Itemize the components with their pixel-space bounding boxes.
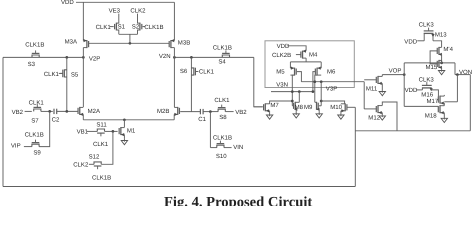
switch S4 [222,55,229,57]
wire M2A source down [82,114,84,119]
junction V2N at M3B drain [173,56,176,59]
svg-text:V2N: V2N [159,53,171,60]
wire M17 drain stub [443,95,445,96]
svg-text:CLK2B: CLK2B [272,52,291,59]
ground below M18 [443,118,445,120]
switch S9 [32,144,39,146]
junction V3N at M5 drain [291,90,294,93]
transistor M17 [439,96,441,104]
svg-text:S2: S2 [132,23,140,30]
wire into M7 gate bar [254,106,263,108]
svg-text:M9: M9 [304,104,313,111]
svg-text:VIP: VIP [11,142,21,149]
wire M12 drain to VON loop [382,102,397,131]
junction on V3P riser [320,100,323,103]
transistor M16 gate bar [422,84,432,86]
wire M16 left lead [421,88,423,90]
svg-text:VB1: VB1 [77,128,89,135]
ground below M12 [381,115,383,117]
wire M11 source down [381,83,383,91]
transistor M13 gate bar [424,30,434,32]
wire M13 to M14 source [433,41,442,48]
wire M8 drain riser [298,92,300,103]
svg-text:CLK1: CLK1 [29,99,45,106]
junction V2N to S6 [190,56,193,59]
wire CLK2 to S12 [89,163,94,165]
svg-text:CLK1: CLK1 [44,71,60,78]
ground below M7 [269,113,271,117]
switch S12 [94,162,101,164]
wire S5 gate lead [59,72,63,74]
junction V3P at M9 gate riser [320,80,323,83]
svg-text:S1: S1 [118,23,126,30]
svg-text:M18: M18 [425,112,437,119]
transistor M6 [316,68,318,76]
svg-text:S7: S7 [31,117,39,124]
wire S11 to M1 gate [105,130,118,132]
wire M7 source down [269,111,271,113]
wire S7 to C2 [41,110,53,112]
wire M6 gate to node V3N [313,72,315,92]
transistor M8 [294,102,296,110]
ground below M9 [318,111,320,115]
wire to M11 gate [364,79,376,81]
wire node VOP [382,74,404,76]
wire S2 source down [138,30,140,34]
wire VDD dash to M16 [416,89,423,91]
wire VON feedback bottom [355,130,470,132]
svg-text:CLK1B: CLK1B [25,132,44,139]
transistor M11 [377,76,379,84]
svg-text:V3N: V3N [276,82,288,89]
junction V3P at M6 drain [313,80,316,83]
svg-text:CLK2: CLK2 [73,161,89,168]
capacitor C1 [199,109,201,114]
wire M15 drain up [441,60,443,63]
wire M7 drain to V3N riser [270,101,293,104]
transistor M7 [264,103,266,111]
svg-text:M6: M6 [327,69,336,76]
wire VON to M17 source node [444,101,457,103]
wire S2 drain to CLK2 [138,14,140,24]
wire M5 gate to node V3P [297,72,301,82]
svg-text:VDD: VDD [404,39,417,46]
transistor M13 channel [424,32,434,34]
svg-text:M10: M10 [330,104,342,111]
wire C2 to M2A gate [57,110,79,112]
junction S1S2 to gate wire [129,42,132,45]
wire S12 to M1 gate node [101,131,113,164]
svg-text:CLK1: CLK1 [199,69,215,76]
wire VDD dash to M13 [417,40,424,42]
transistor M18 [439,105,441,113]
wire bottom feedback [3,186,355,188]
transistor M12 [377,105,379,113]
ground below M15 [441,70,443,72]
svg-text:M3A: M3A [65,38,78,45]
wire tail bus [83,119,174,121]
wire bus down to gate wire [129,34,131,43]
wire M12 source down [381,113,383,116]
switch S10 [217,145,224,147]
svg-text:S10: S10 [216,153,227,160]
svg-text:S3: S3 [28,61,36,68]
svg-text:M11: M11 [366,85,378,92]
svg-text:M5: M5 [276,69,285,76]
switch S1 channel [115,23,117,31]
svg-text:M2B: M2B [157,108,169,115]
svg-text:S12: S12 [89,154,100,161]
transistor M16 channel [422,87,432,89]
svg-text:C2: C2 [52,116,60,123]
svg-text:M'4: M'4 [443,46,453,53]
capacitor C2 [53,109,55,114]
svg-text:M7: M7 [270,102,279,109]
switch S11 [97,129,104,131]
svg-text:CLK1: CLK1 [93,141,109,148]
wire down to VON [454,63,456,75]
switch S6 [191,68,193,75]
wire cross output top [404,62,455,64]
switch S2 channel [139,23,141,31]
switch S3 [32,55,39,57]
wire M16 right lead [430,88,432,90]
svg-text:CLK1B: CLK1B [213,45,232,52]
svg-text:VE3: VE3 [109,7,121,14]
wire CLK3 to M16 gate [426,82,428,85]
wire to M12 gate [364,108,376,110]
wire S1 S2 common source bus [119,33,138,35]
transistor M14 [438,47,440,55]
svg-text:VDD: VDD [405,87,418,94]
ground below M1 [123,138,125,142]
wire node V3P horizontal [301,81,364,83]
wire V3N to M8 gate [292,105,293,107]
junction S9 riser [48,110,51,113]
transistor M3B [170,40,172,48]
wire S4 to M7 gate [254,57,262,106]
wire VDD rail [76,1,174,3]
svg-text:M13: M13 [435,32,447,39]
svg-text:S11: S11 [96,121,107,128]
wire M17 source to M18 drain [443,103,445,106]
junction V3N at M6 gate [312,90,315,93]
wire S10 to VIN [224,147,232,149]
svg-text:VDD: VDD [277,43,290,50]
svg-text:VIN: VIN [233,144,243,151]
wire C1 to S8 [203,111,218,113]
wire M14 drain down [441,54,443,63]
wire M5 drain down node V3N [292,75,294,106]
svg-text:VB2: VB2 [12,109,24,116]
svg-text:VB2: VB2 [235,109,247,116]
svg-text:CLK3: CLK3 [419,22,435,29]
wire M4 drain down [305,58,307,62]
wire M15 source down [441,67,443,70]
wire node V3N horizontal [271,91,313,93]
wire VB1 to S11 [87,130,97,132]
transistor M1 [120,127,122,135]
junction V2P to S5 [65,56,68,59]
wire V3P down to M12 gate [363,82,365,109]
svg-text:M17: M17 [427,98,439,105]
svg-text:M1: M1 [127,128,136,135]
wire M13 left lead [423,33,425,40]
ground below M11 [381,91,383,93]
svg-text:M3B: M3B [178,40,190,47]
wire M18 source down [443,113,445,118]
wire V3P riser down to M9 gate [320,82,322,106]
wire S8 to VB2 [225,111,233,113]
svg-text:M4: M4 [309,52,318,59]
wire CLK3 to M13 gate [428,28,430,31]
wire bus to M5 source [289,62,291,68]
svg-text:V2P: V2P [89,56,100,63]
wire M10 gate to feedback [347,106,355,108]
wire M1 source down [123,135,125,139]
svg-text:S6: S6 [180,68,188,75]
svg-text:M2A: M2A [88,108,101,115]
wire V2P to input node via S5 [66,57,68,111]
wire M2B source down [173,114,175,119]
box around latch stage [265,41,354,88]
arrow on M13 [431,34,434,37]
wire M10 gate feedback drop [354,107,356,186]
wire VON right drop [469,75,471,131]
junction on V3N riser [291,100,294,103]
wire node V2P [3,56,83,58]
wire input node down to S10 [209,112,211,148]
transistor M3A [86,40,88,48]
wire CLK2B to M4 gate [296,54,301,56]
switch S8 [218,109,225,111]
wire M16 to M17 gate [431,90,438,97]
svg-text:S5: S5 [71,72,79,79]
svg-text:VOP: VOP [389,67,402,74]
wire M3A drain to M2A drain [82,48,84,107]
svg-text:CLK1: CLK1 [96,24,112,31]
switch S7 [34,109,41,111]
wire CLK1 to S1 gate [110,26,114,28]
junction VOP riser [403,73,406,76]
wire M9 gate to V3P riser [319,105,321,107]
wire node V2N [174,56,253,58]
wire M11 drain up [381,75,383,77]
wire S2 gate to CLK1B [143,26,146,28]
svg-text:C1: C1 [198,116,206,123]
svg-text:CLK1B: CLK1B [144,24,163,31]
wire VDD to M4 source [287,46,306,51]
wire M6 drain down node V3P [315,75,317,102]
svg-text:S4: S4 [218,59,226,66]
wire V2N to input node via S6 [190,57,192,111]
svg-text:S9: S9 [33,150,41,157]
junction S12 riser [112,130,115,133]
svg-text:S8: S8 [219,114,227,121]
junction V2P at M3A drain [82,56,85,59]
junction M14 M15 drains [440,62,443,65]
transistor M2B [177,107,179,115]
junction tail [123,118,126,121]
wire VB2 to S7 [25,110,32,112]
svg-text:CLK2: CLK2 [130,7,146,14]
junction S10 riser [209,110,212,113]
switch S5 [64,70,66,77]
wire node VON [455,74,470,76]
arrow on M16 [430,88,433,91]
switch S1 gate bar [114,24,116,29]
switch S2 gate bar [141,24,143,29]
wire VOP riser [403,63,405,107]
svg-text:Fig. 4. Proposed Circuit: Fig. 4. Proposed Circuit [164,194,312,206]
transistor M15 [438,60,440,68]
transistor M4 [302,51,304,59]
wire M5 M6 source bus [290,61,321,63]
transistor M10 [344,103,346,111]
svg-text:V3P: V3P [326,85,337,92]
svg-text:CLK1B: CLK1B [25,41,44,48]
wire VDD to M3A source [82,2,84,40]
svg-text:CLK1: CLK1 [214,97,230,104]
wire to S10 [210,147,217,149]
wire bus to M6 source [320,62,322,68]
transistor M5 [294,68,296,76]
wire M3A gate to M3B gate [89,42,170,44]
wire M2B gate to C1 [180,111,200,113]
svg-text:M16: M16 [421,91,433,98]
wire S9 to input node [39,111,50,146]
wire M8 source down [295,109,297,111]
junction VON riser [456,73,459,76]
svg-text:CLK1B: CLK1B [92,174,111,181]
junction S5 drop at input [65,110,68,113]
wire M9 source down [318,109,320,111]
wire VDD rail to M3B source [173,2,175,40]
wire M10 source down [340,111,342,113]
wire M13 right lead [432,33,434,40]
wire VON riser down [456,75,458,102]
wire left feedback drop [2,57,4,186]
ground below M8 [295,111,297,115]
svg-text:VDD: VDD [61,0,74,6]
wire M14 gate to M15 gate [430,51,437,64]
wire M3B drain to M2B drain [173,48,175,107]
wire S1 drain to VE3 [116,14,118,24]
wire VIP to S9 [24,146,32,148]
junction V3N at M8 drain [298,90,301,93]
transistor M9 [316,102,318,110]
wire S1 source down [116,30,118,34]
svg-text:M15: M15 [426,64,438,71]
ground below M10 [340,113,342,117]
svg-text:CLK1B: CLK1B [213,134,232,141]
wire V3P riser to M10 drain [321,101,344,104]
wire tail to M1 drain [123,120,125,128]
wire VOP to M18 gate [404,105,438,107]
transistor M2A [79,107,81,115]
